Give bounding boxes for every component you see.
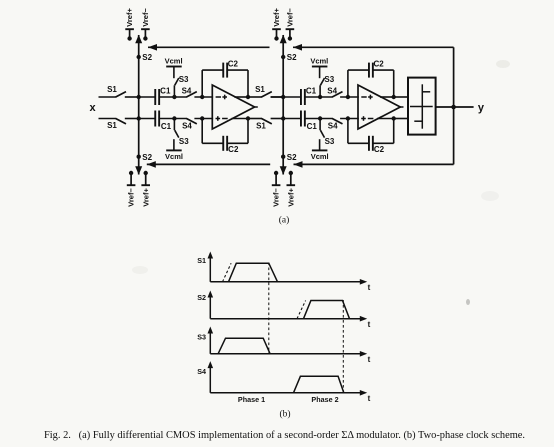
svg-text:S2: S2 xyxy=(197,293,206,302)
svg-text:Vcml: Vcml xyxy=(165,56,183,65)
svg-text:C2: C2 xyxy=(228,59,239,68)
svg-text:S4: S4 xyxy=(182,86,192,95)
svg-text:Vref+: Vref+ xyxy=(141,187,150,206)
svg-text:C2: C2 xyxy=(228,145,239,154)
svg-text:S2: S2 xyxy=(142,153,152,162)
svg-text:S2: S2 xyxy=(142,53,152,62)
svg-text:S1: S1 xyxy=(197,256,206,265)
svg-text:C1: C1 xyxy=(306,86,317,95)
svg-text:Vref+: Vref+ xyxy=(286,187,295,206)
svg-text:S3: S3 xyxy=(197,333,206,342)
svg-text:y: y xyxy=(478,102,485,114)
svg-text:Vref−: Vref− xyxy=(272,187,281,206)
svg-text:S1: S1 xyxy=(107,121,117,130)
svg-text:Vcml: Vcml xyxy=(311,152,329,161)
svg-text:S4: S4 xyxy=(328,122,338,131)
svg-text:Fig. 2. (a) Fully differenti: Fig. 2. (a) Fully differential CMOS impl… xyxy=(44,430,525,441)
svg-text:S2: S2 xyxy=(287,153,297,162)
svg-text:Vref−: Vref− xyxy=(286,7,295,26)
svg-text:S4: S4 xyxy=(197,367,206,376)
svg-text:C2: C2 xyxy=(374,145,385,154)
svg-text:t: t xyxy=(368,283,371,292)
svg-text:(a): (a) xyxy=(279,215,290,226)
svg-text:S2: S2 xyxy=(287,53,297,62)
svg-text:Vcml: Vcml xyxy=(165,152,183,161)
svg-text:C1: C1 xyxy=(161,122,172,131)
svg-text:S3: S3 xyxy=(179,137,189,146)
svg-text:Phase 1: Phase 1 xyxy=(238,395,265,404)
svg-text:S4: S4 xyxy=(182,122,192,131)
svg-text:Vref−: Vref− xyxy=(141,7,150,26)
svg-text:S3: S3 xyxy=(325,137,335,146)
svg-text:S1: S1 xyxy=(255,85,265,94)
svg-text:S1: S1 xyxy=(256,122,266,131)
svg-text:t: t xyxy=(368,320,371,329)
svg-text:S4: S4 xyxy=(327,86,337,95)
svg-text:(b): (b) xyxy=(279,409,290,420)
svg-text:Vref+: Vref+ xyxy=(272,7,281,26)
svg-text:Phase 2: Phase 2 xyxy=(311,395,338,404)
svg-text:t: t xyxy=(368,394,371,403)
svg-text:C1: C1 xyxy=(160,86,171,95)
svg-text:S1: S1 xyxy=(107,85,117,94)
svg-text:Vref−: Vref− xyxy=(127,187,136,206)
svg-text:Vcml: Vcml xyxy=(310,56,328,65)
svg-text:S3: S3 xyxy=(179,75,189,84)
svg-text:t: t xyxy=(368,355,371,364)
svg-text:S3: S3 xyxy=(324,75,334,84)
svg-text:Vref+: Vref+ xyxy=(125,7,134,26)
svg-text:C1: C1 xyxy=(307,122,318,131)
svg-text:C2: C2 xyxy=(373,59,384,68)
svg-text:x: x xyxy=(89,102,96,114)
